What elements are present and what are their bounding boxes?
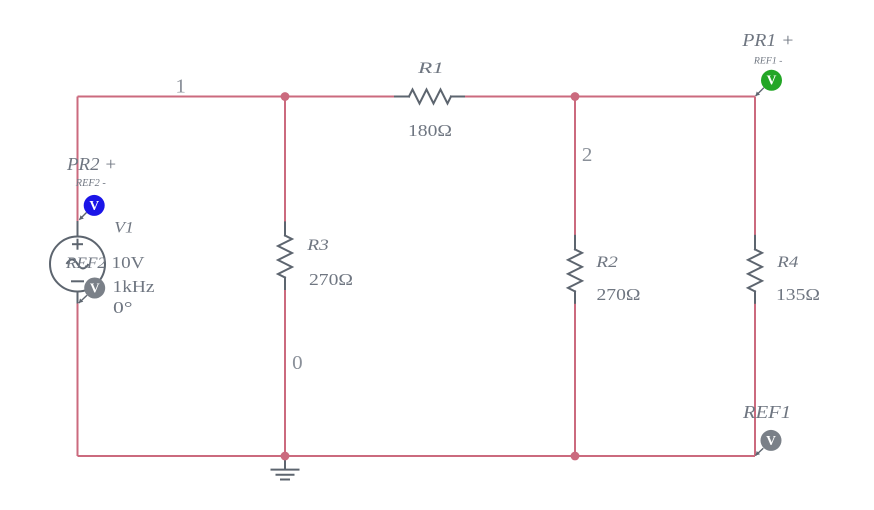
svg-text:180Ω: 180Ω [408, 121, 452, 140]
wire bottom segment (node 0) [78, 455, 756, 457]
probe PR2 pointer [79, 213, 86, 220]
wire right vertical below R4 [754, 303, 756, 456]
svg-text:R2: R2 [595, 254, 618, 271]
wire R3 branch above [284, 97, 286, 223]
ground [271, 456, 300, 480]
svg-text:135Ω: 135Ω [776, 285, 820, 304]
svg-text:PR1 +: PR1 + [741, 30, 794, 50]
wire left vertical below V1 [77, 304, 79, 457]
svg-text:0: 0 [292, 353, 303, 374]
voltage source V1 [50, 221, 105, 304]
svg-text:1: 1 [175, 77, 186, 98]
probe REF1 pointer [756, 448, 764, 455]
svg-text:R3: R3 [306, 237, 329, 254]
svg-text:10V: 10V [112, 253, 146, 272]
junction bottom at R3 branch [281, 452, 290, 461]
wire R3 branch below [284, 289, 286, 456]
svg-text:V: V [766, 433, 776, 448]
junction bottom at R2 branch [571, 452, 580, 461]
resistor R3 [278, 222, 292, 289]
probe REF2 pointer [79, 295, 87, 303]
svg-text:270Ω: 270Ω [309, 270, 353, 289]
svg-text:REF2 -: REF2 - [75, 178, 106, 189]
resistor R1 [395, 90, 464, 104]
svg-text:V: V [89, 198, 99, 213]
svg-text:V: V [767, 73, 777, 88]
svg-text:0°: 0° [113, 298, 133, 317]
svg-text:2: 2 [582, 145, 593, 166]
probe PR1 pointer [756, 88, 764, 96]
wire R2 branch below [574, 303, 576, 456]
probe REF2 (gray reference probe) [84, 278, 105, 299]
svg-text:270Ω: 270Ω [597, 285, 641, 304]
probe PR1 (green voltage probe) [761, 70, 782, 91]
wire top segment right of R1 (node 2) [464, 96, 755, 98]
svg-text:PR2 +: PR2 + [66, 154, 117, 174]
wire right vertical above R4 [754, 97, 756, 237]
svg-text:REF1 -: REF1 - [753, 57, 783, 67]
svg-text:REF1: REF1 [742, 402, 791, 422]
svg-text:R1: R1 [417, 60, 444, 77]
junction top node 2 [571, 92, 580, 101]
resistor R4 [748, 236, 762, 303]
svg-text:REF2: REF2 [65, 255, 106, 272]
probe REF1 (gray reference probe) [761, 430, 782, 451]
svg-text:V: V [90, 280, 100, 295]
svg-text:V1: V1 [114, 220, 134, 237]
junction top at R3 branch [281, 92, 290, 101]
wire left vertical above V1 [77, 97, 79, 222]
resistor R2 [568, 236, 582, 303]
svg-text:R4: R4 [776, 254, 798, 271]
wire R2 branch above [574, 97, 576, 236]
probe PR2 (blue voltage probe) [84, 195, 105, 216]
wire top segment left (node 1) [78, 96, 396, 98]
svg-text:1kHz: 1kHz [113, 277, 156, 296]
